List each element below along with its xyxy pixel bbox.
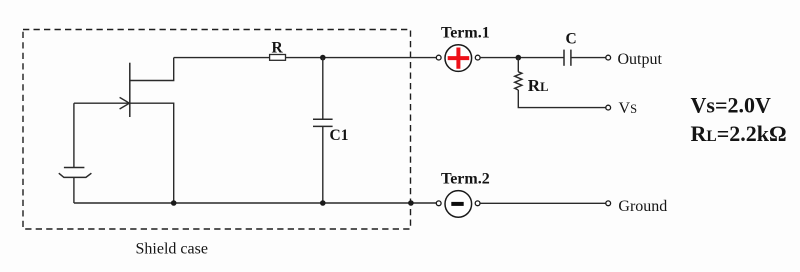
svg-text:RL=2.2kΩ: RL=2.2kΩ xyxy=(691,121,787,146)
terminal Term.2 left pin circle xyxy=(436,201,441,206)
svg-text:R: R xyxy=(272,39,284,56)
battery B1 bottom curved plate xyxy=(59,173,92,177)
svg-text:C1: C1 xyxy=(330,127,349,144)
capacitor C1 top plate xyxy=(313,118,333,120)
capacitor C right plate xyxy=(570,50,572,66)
resistor RL zigzag xyxy=(515,72,522,90)
terminal Term.2 minus bar xyxy=(451,202,463,206)
terminal Term.1 red plus sign xyxy=(448,48,470,69)
wire: battery negative lead down xyxy=(73,177,75,203)
terminal: Vs open circle xyxy=(606,105,611,110)
wire: RL lower lead and run to Vs terminal xyxy=(518,90,606,108)
terminal Term.2 body circle xyxy=(445,191,472,218)
shield case dashed enclosure xyxy=(23,30,411,230)
svg-text:Ground: Ground xyxy=(618,198,667,215)
terminal: Output open circle xyxy=(606,55,611,60)
wire: C1 lower lead xyxy=(322,126,324,203)
capacitor C1 bottom plate xyxy=(313,125,333,127)
wire: vertical from gate corner down to battery top xyxy=(73,103,75,167)
node: C1 junction on bottom rail xyxy=(320,200,326,206)
wire: capacitor C to output terminal xyxy=(571,57,606,59)
transistor Q1 gate arrowhead xyxy=(120,97,130,109)
node: RL junction on output rail xyxy=(516,55,522,61)
wire: top rail right of R to terminal 1 xyxy=(286,57,437,59)
resistor R (box) xyxy=(270,55,286,61)
wire: drain lead with step up to top rail xyxy=(130,58,174,81)
svg-text:Term.2: Term.2 xyxy=(441,170,490,187)
transistor Q1 channel bar xyxy=(129,63,131,117)
svg-text:Term.1: Term.1 xyxy=(441,24,490,41)
terminal: Ground open circle xyxy=(606,201,611,206)
wire: terminal 2 to ground terminal xyxy=(480,202,606,204)
wire: RL upper lead xyxy=(517,58,519,72)
terminal Term.2 right pin circle xyxy=(475,201,480,206)
node: junction of C1 with top rail xyxy=(320,55,326,61)
svg-text:Shield case: Shield case xyxy=(136,241,208,258)
terminal Term.1 right pin circle xyxy=(475,55,480,60)
svg-text:Vs=2.0V: Vs=2.0V xyxy=(691,92,771,117)
node: source lead junction on bottom rail xyxy=(171,200,177,206)
capacitor C left plate xyxy=(563,50,565,66)
node: bottom rail junction at shield boundary xyxy=(408,200,414,206)
terminal Term.1 left pin circle xyxy=(436,55,441,60)
svg-text:Output: Output xyxy=(618,51,663,68)
wire: bottom rail inside shield xyxy=(74,202,437,204)
wire: terminal 1 to capacitor C xyxy=(480,57,564,59)
svg-text:C: C xyxy=(566,30,577,47)
svg-text:VS: VS xyxy=(619,100,638,117)
wire: gate lead from battery node to transistor xyxy=(74,102,130,104)
wire: source lead to vertical drop xyxy=(130,103,174,203)
wire: top rail left of R xyxy=(174,57,270,59)
wire: C1 upper lead xyxy=(322,58,324,120)
battery B1 top plate xyxy=(64,167,85,169)
terminal Term.1 body circle xyxy=(445,45,472,72)
